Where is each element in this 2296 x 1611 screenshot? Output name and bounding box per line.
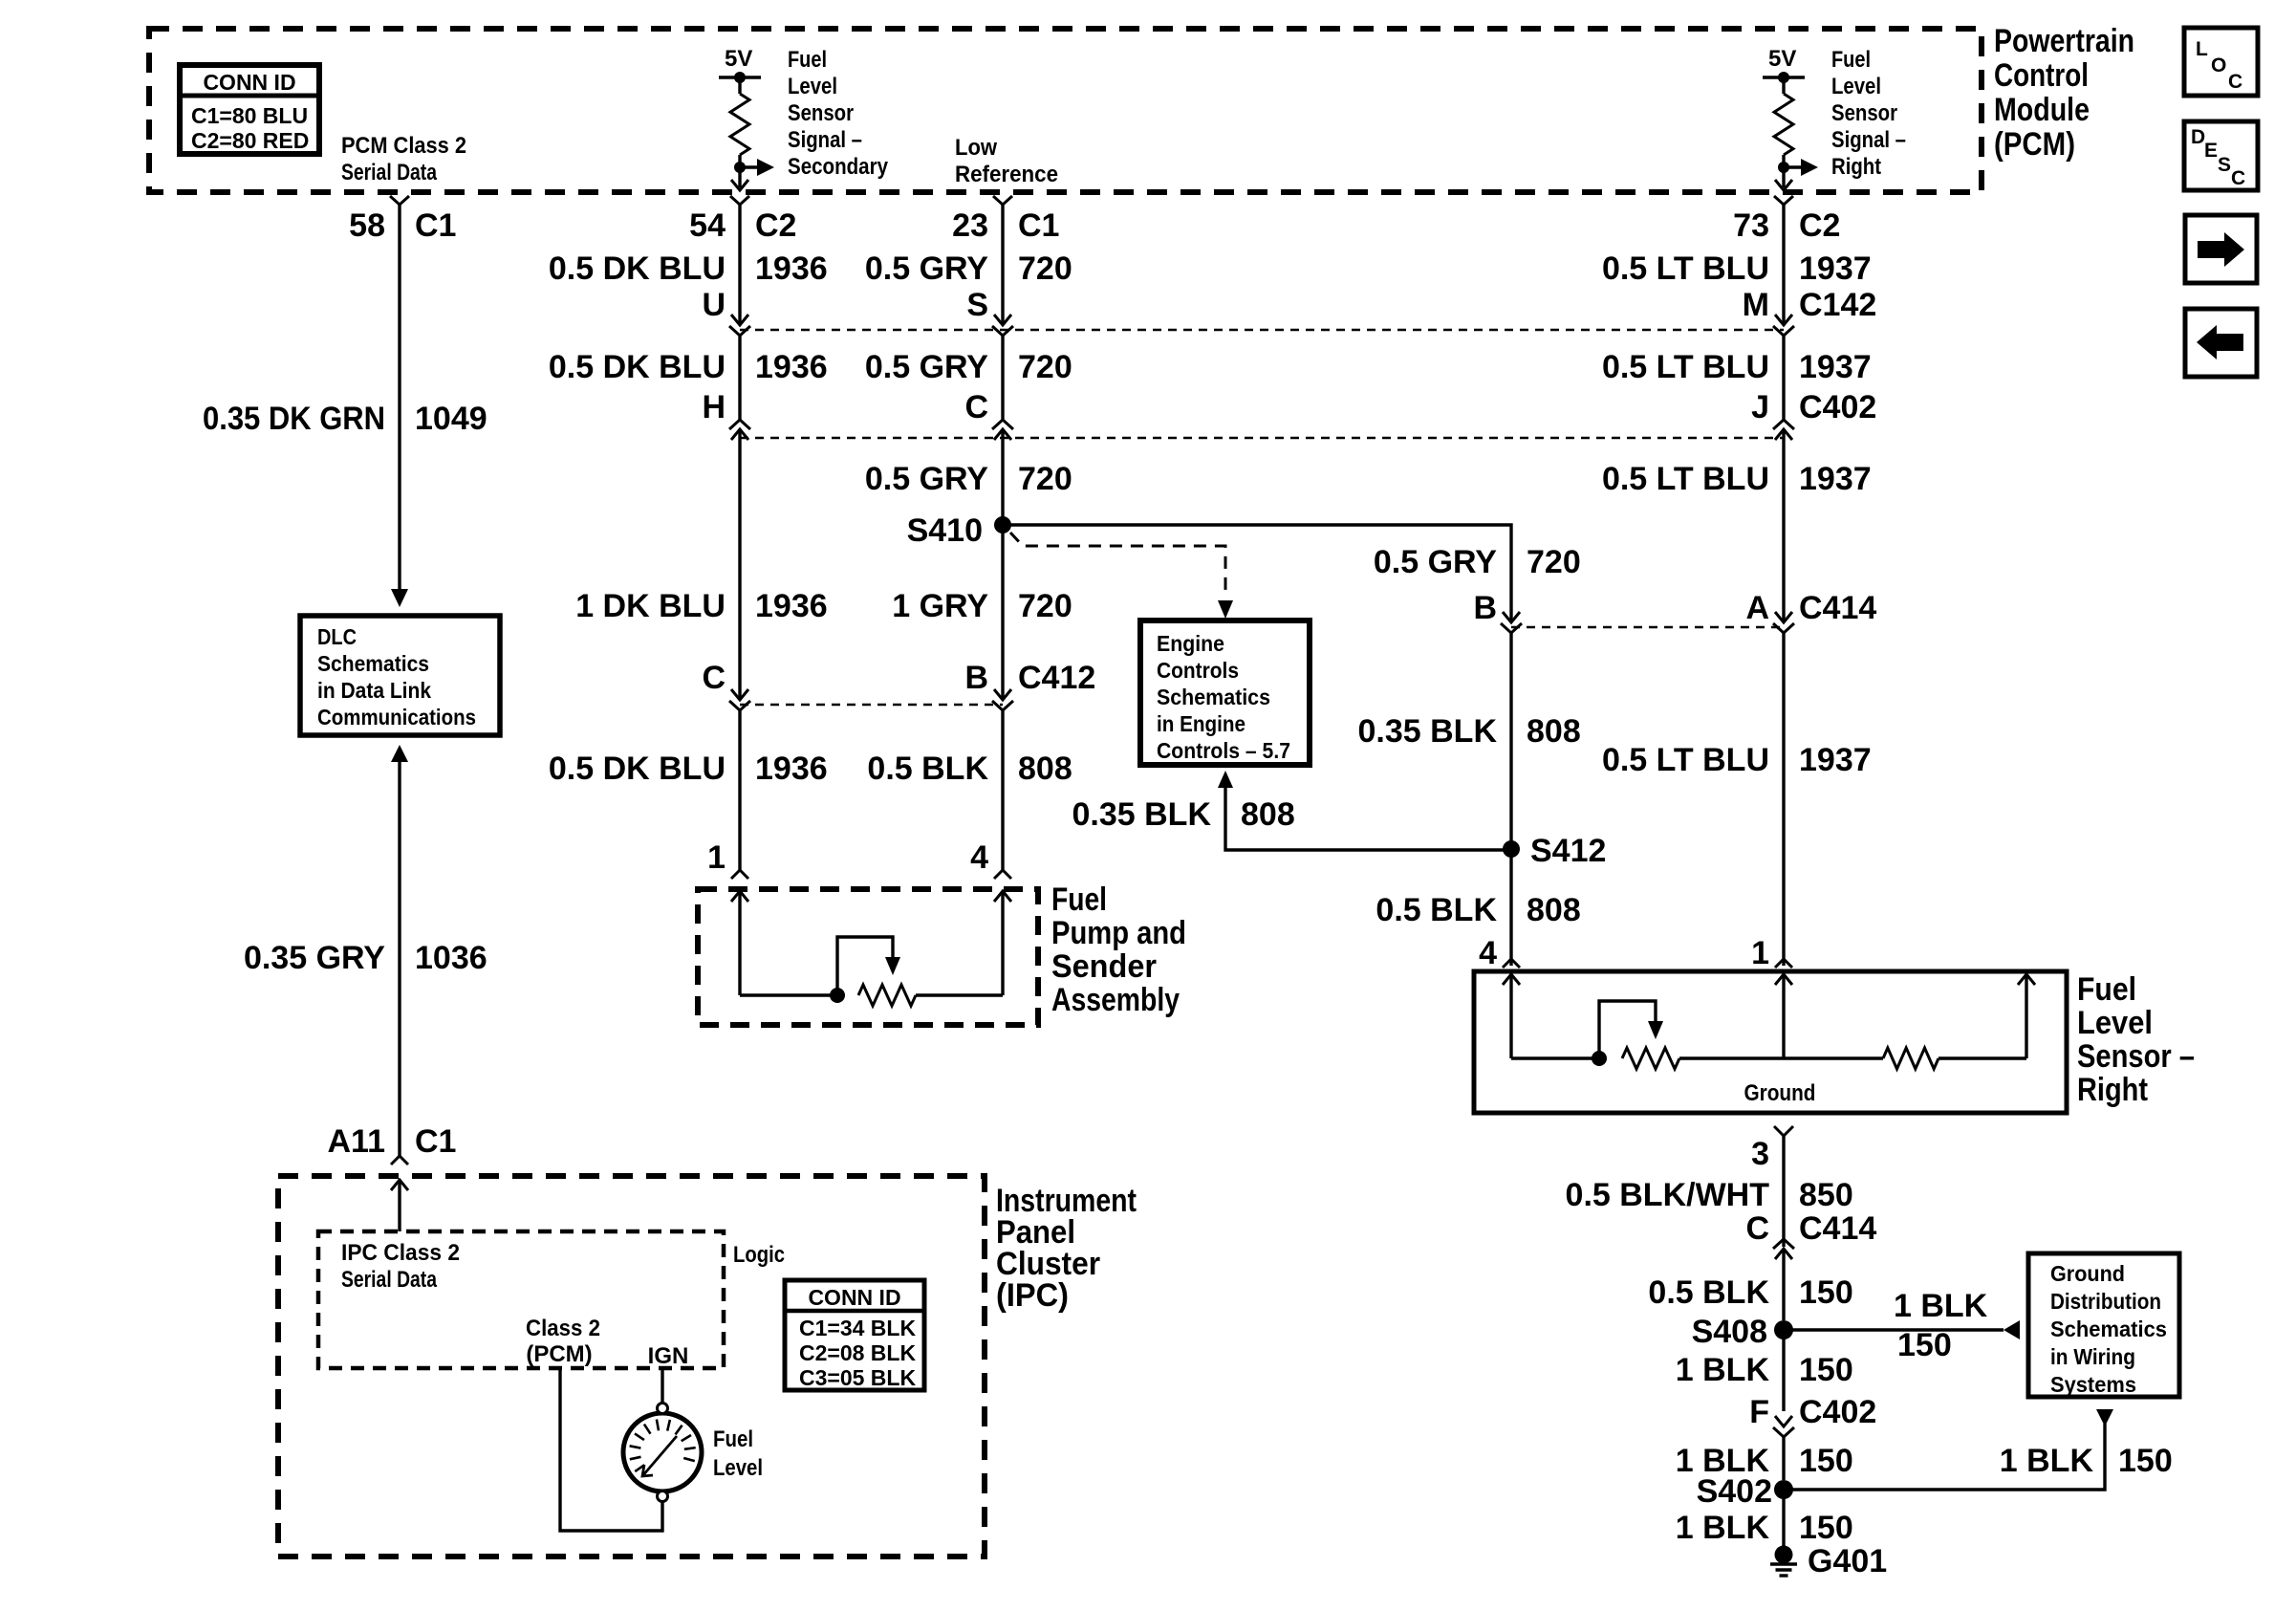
- svg-text:1049: 1049: [415, 401, 487, 437]
- svg-text:C2=80 RED: C2=80 RED: [191, 128, 309, 153]
- svg-text:150: 150: [1799, 1352, 1853, 1388]
- svg-text:0.5 DK BLU: 0.5 DK BLU: [549, 751, 726, 787]
- svg-text:Controls: Controls: [1157, 658, 1239, 683]
- inline connector C414 pin A: [1775, 612, 1792, 622]
- connector half: fuel level sensor pin 4: [1503, 959, 1520, 968]
- junction: signal tap (right): [1778, 162, 1789, 173]
- svg-text:in Engine: in Engine: [1157, 711, 1245, 736]
- svg-text:Schematics: Schematics: [1157, 685, 1270, 709]
- dashed branch: low reference to engine controls: [1010, 533, 1225, 598]
- svg-text:S408: S408: [1692, 1314, 1767, 1350]
- svg-text:0.5 BLK/WHT: 0.5 BLK/WHT: [1566, 1177, 1770, 1213]
- svg-text:C: C: [1745, 1210, 1769, 1247]
- svg-text:808: 808: [1018, 751, 1072, 787]
- connector half: IPC pin A11 (C1): [391, 1156, 408, 1165]
- svg-text:150: 150: [2118, 1443, 2173, 1479]
- svg-text:PCM Class 2: PCM Class 2: [341, 133, 466, 159]
- wire: 0.35 DK GRN 1049 class 2 serial data: [398, 205, 401, 589]
- svg-text:Communications: Communications: [317, 705, 476, 729]
- svg-text:IPC Class 2: IPC Class 2: [341, 1240, 460, 1266]
- inline connector C402 pin J: [1773, 420, 1794, 429]
- svg-text:0.5 BLK: 0.5 BLK: [1375, 892, 1497, 928]
- legend box: arrow right: [2185, 215, 2257, 283]
- svg-text:4: 4: [1479, 935, 1497, 971]
- svg-text:U: U: [702, 287, 726, 323]
- splice S412: [1503, 840, 1520, 858]
- wire: gauge return to Class 2 logic: [560, 1368, 662, 1531]
- inline connector C412 pin B: [994, 689, 1011, 700]
- wire: IGN feed to fuel gauge: [661, 1368, 663, 1404]
- wire: sender to pin 4: [916, 993, 1003, 996]
- wire: 0.5 BLK/WHT 850 (sensor to C414): [1782, 1136, 1785, 1247]
- svg-text:C412: C412: [1018, 660, 1095, 696]
- arrowhead: pin 4 entering sender: [994, 891, 1011, 902]
- svg-text:150: 150: [1799, 1510, 1853, 1546]
- svg-text:Level: Level: [713, 1455, 763, 1481]
- svg-text:C1: C1: [1018, 207, 1059, 244]
- inline connector C402 pin C: [992, 420, 1013, 429]
- svg-text:Fuel: Fuel: [1831, 47, 1871, 73]
- svg-text:Logic: Logic: [733, 1242, 785, 1268]
- wire: 0.5 BLK 150 (C414 to S408): [1782, 1251, 1785, 1320]
- ground G401: [1770, 1546, 1797, 1577]
- svg-text:Level: Level: [2077, 1005, 2153, 1041]
- connector half: sensor pin 3: [1774, 1126, 1793, 1136]
- svg-text:CONN ID: CONN ID: [808, 1285, 900, 1310]
- inline connector C414 pin B: [1503, 612, 1520, 622]
- svg-text:Control: Control: [1994, 57, 2089, 94]
- connector half: PCM pin 54 (C2): [730, 196, 749, 205]
- wiper arm arrow of fuel level sensor: [1599, 1001, 1663, 1058]
- module: Instrument Panel Cluster (IPC) dashed box: [278, 1176, 985, 1557]
- svg-text:Level: Level: [1831, 74, 1881, 99]
- reference box: DLC Schematics in Data Link Communications: [300, 616, 500, 735]
- svg-text:Distribution: Distribution: [2050, 1289, 2161, 1314]
- svg-text:0.5 BLK: 0.5 BLK: [1648, 1274, 1769, 1311]
- svg-text:H: H: [702, 389, 726, 425]
- svg-text:808: 808: [1527, 892, 1581, 928]
- svg-text:0.35 GRY: 0.35 GRY: [244, 940, 385, 976]
- inline connector C142 dashed body: [740, 329, 1784, 332]
- legend box: DESC: [2184, 121, 2258, 190]
- svg-text:C402: C402: [1799, 389, 1876, 425]
- arrowhead: wire leaving PCM: [731, 180, 748, 190]
- svg-text:C414: C414: [1799, 1210, 1876, 1247]
- wire: sensor bottom left: [1511, 1056, 1599, 1059]
- legend box: LOC: [2184, 28, 2258, 96]
- wiper arm: [837, 937, 893, 995]
- connector ID table CONN ID (IPC): C1=34 BLK / C2=08 BLK / C3=05 BLK: [785, 1280, 924, 1390]
- inline connector C412 pin C: [731, 689, 748, 700]
- svg-text:F: F: [1749, 1394, 1769, 1430]
- svg-text:DLC: DLC: [317, 624, 357, 649]
- svg-text:S412: S412: [1530, 833, 1606, 869]
- svg-text:1 BLK: 1 BLK: [1676, 1510, 1770, 1546]
- svg-text:Controls – 5.7: Controls – 5.7: [1157, 738, 1290, 763]
- arrowhead: wire leaving PCM: [1775, 180, 1792, 190]
- svg-text:(IPC): (IPC): [996, 1277, 1069, 1314]
- module: Powertrain Control Module (PCM) dashed box: [149, 29, 1982, 192]
- arrowhead: right lead entering sensor: [2018, 974, 2035, 985]
- wire: 0.5 LT BLU 1937 (C414 to fuel level sensor): [1782, 633, 1785, 966]
- inline connector C412 dashed body: [740, 704, 1003, 707]
- wire: class 2 serial data inside IPC: [398, 1180, 401, 1231]
- svg-text:S402: S402: [1697, 1473, 1772, 1510]
- svg-text:0.35 BLK: 0.35 BLK: [1072, 796, 1212, 833]
- svg-text:0.5 GRY: 0.5 GRY: [865, 349, 988, 385]
- wiper arrowhead: [1648, 1021, 1663, 1039]
- svg-text:Fuel: Fuel: [2077, 971, 2136, 1008]
- wire: sender bottom: [740, 993, 837, 996]
- svg-text:S: S: [966, 287, 988, 323]
- svg-text:C2: C2: [1799, 207, 1840, 244]
- arrowhead: from IPC up into DLC box: [391, 745, 408, 762]
- svg-text:Fuel: Fuel: [713, 1426, 753, 1452]
- wire: sender wiper lead: [738, 891, 741, 995]
- wire: sensor bottom middle: [1679, 1056, 1883, 1059]
- svg-text:B: B: [964, 660, 988, 696]
- svg-text:850: 850: [1799, 1177, 1853, 1213]
- resistor zigzag: [730, 94, 749, 155]
- resistor: PCM internal pull-up (secondary): [730, 77, 749, 187]
- wire: 1 DK BLU 1936 (C402 to C412): [738, 431, 741, 700]
- svg-text:C2: C2: [755, 207, 796, 244]
- component: Fuel Pump and Sender Assembly dashed box: [698, 889, 1038, 1025]
- svg-text:Signal –: Signal –: [1831, 127, 1906, 153]
- wire: 0.5 LT BLU 1937 (C402 to C414): [1782, 431, 1785, 622]
- node: 5V supply (secondary sensor pull-up): [719, 46, 761, 83]
- gauge needle: [642, 1436, 677, 1476]
- wire: 0.5 DK BLU 1936 (C142 to C402): [738, 336, 741, 421]
- wire: sensor signal lead: [1782, 974, 1785, 1058]
- svg-text:C: C: [702, 660, 726, 696]
- wire: 0.35 GRY 1036 class 2 serial data: [398, 762, 401, 1156]
- svg-text:CONN ID: CONN ID: [203, 70, 295, 95]
- svg-text:Serial Data: Serial Data: [341, 1267, 438, 1293]
- connector ID table CONN ID (PCM): C1=80 BLU / C2=80 RED: [180, 65, 319, 154]
- svg-text:720: 720: [1018, 349, 1072, 385]
- arrowhead: toward ground distribution (off-page): [2004, 1320, 2020, 1339]
- inline connector C414 pin C: [1773, 1239, 1794, 1249]
- resistor zigzag: sense element: [1622, 1048, 1679, 1069]
- svg-text:808: 808: [1527, 713, 1581, 750]
- svg-text:A11: A11: [328, 1123, 386, 1160]
- svg-text:in Wiring: in Wiring: [2050, 1344, 2135, 1369]
- splice S402: [1774, 1480, 1793, 1499]
- inline connector C402 pin H: [729, 420, 750, 429]
- legend box: arrow left: [2185, 309, 2257, 377]
- svg-text:C: C: [2231, 167, 2245, 189]
- reference box: Ground Distribution Schematics in Wiring Systems: [2028, 1253, 2179, 1397]
- svg-text:720: 720: [1018, 461, 1072, 497]
- arrowhead: pin 1 entering sender: [731, 891, 748, 902]
- logic block: IPC Class 2 Serial Data dashed box: [318, 1231, 724, 1368]
- svg-text:C1: C1: [415, 1123, 456, 1160]
- svg-text:0.35 BLK: 0.35 BLK: [1358, 713, 1498, 750]
- resistor zigzag: sender element: [858, 985, 916, 1006]
- resistor zigzag: [1883, 1048, 1939, 1069]
- svg-text:1936: 1936: [755, 250, 828, 287]
- svg-text:Powertrain: Powertrain: [1994, 23, 2134, 59]
- splice S408: [1774, 1320, 1793, 1339]
- svg-text:0.5 DK BLU: 0.5 DK BLU: [549, 250, 726, 287]
- svg-text:0.5 BLK: 0.5 BLK: [867, 751, 988, 787]
- svg-text:Fuel: Fuel: [1051, 882, 1107, 918]
- variable resistor: fuel sender: [740, 985, 1003, 1006]
- svg-text:Assembly: Assembly: [1051, 982, 1180, 1018]
- connector half: PCM pin 58 (C1): [390, 196, 409, 205]
- svg-text:808: 808: [1241, 796, 1295, 833]
- svg-text:C1=34 BLK: C1=34 BLK: [799, 1316, 916, 1340]
- svg-text:1936: 1936: [755, 349, 828, 385]
- svg-text:Systems: Systems: [2050, 1372, 2136, 1397]
- svg-text:O: O: [2211, 54, 2226, 76]
- svg-text:Module: Module: [1994, 92, 2090, 128]
- svg-text:720: 720: [1018, 588, 1072, 624]
- svg-text:150: 150: [1799, 1274, 1853, 1311]
- wiper arm arrow of fuel sender: [837, 937, 900, 995]
- junction: signal tap (secondary): [734, 162, 746, 173]
- svg-text:Secondary: Secondary: [788, 154, 889, 180]
- svg-text:1 BLK: 1 BLK: [2000, 1443, 2094, 1479]
- inline connector C402 dashed body: [740, 437, 1784, 440]
- wire: 1 BLK 150 from S408 to ground distribution: [1784, 1328, 2004, 1331]
- wire: 0.5 LT BLU 1937 (PCM to C142): [1782, 205, 1785, 325]
- svg-text:Fuel: Fuel: [788, 47, 827, 73]
- svg-text:(PCM): (PCM): [1994, 126, 2075, 163]
- svg-text:C414: C414: [1799, 590, 1876, 626]
- reference box: Engine Controls Schematics in Engine Controls - 5.7: [1140, 620, 1310, 765]
- svg-text:4: 4: [970, 839, 988, 876]
- svg-text:1036: 1036: [415, 940, 487, 976]
- svg-text:54: 54: [689, 207, 726, 244]
- svg-text:Right: Right: [1831, 154, 1881, 180]
- svg-text:1: 1: [707, 839, 726, 876]
- wire: sensor wiper lead: [1509, 974, 1512, 1058]
- svg-text:B: B: [1473, 590, 1497, 626]
- wire: 0.35/0.5 BLK 808 (C414 to fuel level sensor): [1509, 633, 1512, 966]
- svg-text:in Data Link: in Data Link: [317, 678, 431, 703]
- svg-text:1 GRY: 1 GRY: [892, 588, 988, 624]
- svg-text:C: C: [2228, 71, 2242, 93]
- svg-text:Reference: Reference: [955, 162, 1058, 187]
- svg-text:1 BLK: 1 BLK: [1894, 1288, 1988, 1324]
- svg-text:C1: C1: [415, 207, 456, 244]
- svg-text:C142: C142: [1799, 287, 1876, 323]
- svg-text:C3=05 BLK: C3=05 BLK: [799, 1365, 916, 1390]
- svg-text:C2=08 BLK: C2=08 BLK: [799, 1340, 916, 1365]
- svg-text:0.5 DK BLU: 0.5 DK BLU: [549, 349, 726, 385]
- connector half: fuel pump pin 1: [731, 870, 748, 879]
- inline connector C402 pin F: [1775, 1416, 1792, 1426]
- resistor zigzag: [1774, 94, 1793, 155]
- svg-text:Engine: Engine: [1157, 631, 1224, 656]
- svg-text:1937: 1937: [1799, 742, 1872, 778]
- resistor: sensor ground-side element: [1883, 1048, 2026, 1069]
- gauge: Fuel Level indicator: [623, 1404, 702, 1502]
- svg-text:A: A: [1745, 590, 1769, 626]
- svg-text:M: M: [1743, 287, 1769, 323]
- wire: 0.5 GRY 720 (C142 to C402): [1001, 336, 1004, 421]
- svg-text:L: L: [2196, 38, 2208, 60]
- svg-text:G401: G401: [1808, 1543, 1887, 1579]
- wire: 0.5 GRY 720 (PCM to C142): [1001, 205, 1004, 325]
- svg-text:Signal –: Signal –: [788, 127, 862, 153]
- svg-text:Class 2: Class 2: [526, 1316, 600, 1341]
- arrowhead: pin 1 entering sensor: [1775, 974, 1792, 985]
- arrowhead: from engine controls ground lead: [1218, 771, 1233, 788]
- wire: 0.5 LT BLU 1937 (C142 to C402): [1782, 336, 1785, 421]
- svg-text:Schematics: Schematics: [317, 651, 429, 676]
- arrowhead: into DLC schematics: [391, 589, 408, 607]
- svg-text:1936: 1936: [755, 588, 828, 624]
- inline connector C142 pin S: [994, 315, 1011, 325]
- inline connector C414 dashed body: [1511, 626, 1784, 629]
- wire: 1 BLK 150 (S402 to G401): [1782, 1490, 1785, 1546]
- svg-text:0.5 LT BLU: 0.5 LT BLU: [1602, 461, 1769, 497]
- resistor: PCM internal pull-up (right): [1774, 77, 1793, 187]
- svg-text:Pump and: Pump and: [1051, 915, 1186, 951]
- svg-text:58: 58: [349, 207, 385, 244]
- svg-text:150: 150: [1799, 1443, 1853, 1479]
- svg-text:1937: 1937: [1799, 250, 1872, 287]
- svg-text:(PCM): (PCM): [526, 1341, 592, 1367]
- svg-text:Right: Right: [2077, 1072, 2148, 1108]
- wire: 1 BLK 150 (C402 to S402): [1782, 1437, 1785, 1480]
- component: Fuel Level Sensor - Right box: [1474, 971, 2067, 1113]
- svg-text:0.5 GRY: 0.5 GRY: [865, 250, 988, 287]
- node: 5V supply (right sensor pull-up): [1763, 46, 1805, 83]
- svg-text:S410: S410: [907, 512, 983, 549]
- svg-text:Ground: Ground: [1744, 1080, 1816, 1106]
- signal tap arrow: Fuel Level Sensor Signal - Secondary: [740, 165, 757, 168]
- svg-text:23: 23: [952, 207, 988, 244]
- svg-text:73: 73: [1733, 207, 1769, 244]
- svg-text:0.5 GRY: 0.5 GRY: [865, 461, 988, 497]
- svg-text:0.5 LT BLU: 0.5 LT BLU: [1602, 742, 1769, 778]
- ground dot: [1775, 1546, 1793, 1564]
- svg-text:1937: 1937: [1799, 461, 1872, 497]
- svg-text:C402: C402: [1799, 1394, 1876, 1430]
- wire: 1 BLK 150 branch from ground distribution down to S402: [1784, 1409, 2113, 1490]
- wire: 0.5 DK BLU 1936 (PCM to C142): [738, 205, 741, 325]
- wire: sender resistor lead: [1001, 891, 1004, 995]
- svg-text:Sender: Sender: [1051, 948, 1157, 985]
- svg-text:5V: 5V: [1768, 46, 1796, 72]
- wire: resistor to PCM pin 73: [1782, 155, 1785, 187]
- svg-text:720: 720: [1527, 544, 1581, 580]
- junction: sensor wiper: [1592, 1051, 1607, 1066]
- wire: 0.5 BLK 808 (C412 to fuel pump): [1001, 710, 1004, 870]
- wire: 5V to resistor: [738, 77, 741, 94]
- variable resistor: fuel level sensor element: [1511, 1048, 1883, 1069]
- connector half: PCM pin 23 (C1): [993, 196, 1012, 205]
- arrowhead: pin 4 entering sensor: [1503, 974, 1520, 985]
- arrow: signal direction (right): [757, 159, 774, 176]
- svg-text:5V: 5V: [725, 46, 752, 72]
- inline connector C142 pin M: [1775, 315, 1792, 325]
- wiper arrowhead: [885, 957, 900, 975]
- arrowhead: wire entering IPC: [391, 1180, 408, 1190]
- svg-text:Sensor: Sensor: [788, 100, 854, 126]
- svg-text:Level: Level: [788, 74, 837, 99]
- inline connector C142 pin U: [731, 315, 748, 325]
- svg-text:1 BLK: 1 BLK: [1676, 1352, 1770, 1388]
- svg-text:150: 150: [1897, 1327, 1952, 1363]
- wire: to right lead: [1939, 1056, 2026, 1059]
- wire: 1 BLK 150 (S408 to C402): [1782, 1330, 1785, 1411]
- svg-text:J: J: [1751, 389, 1769, 425]
- wire: 0.35 BLK 808 engine controls ground to S412: [1225, 788, 1511, 850]
- svg-text:0.5 LT BLU: 0.5 LT BLU: [1602, 250, 1769, 287]
- svg-text:1936: 1936: [755, 751, 828, 787]
- arrowhead: from ground distribution (off-page): [2096, 1409, 2113, 1426]
- wire: resistor to PCM pin 54: [738, 155, 741, 187]
- junction: sender wiper: [830, 988, 845, 1003]
- wire: sensor right lead: [2025, 974, 2027, 1058]
- arrow: signal direction (right): [1801, 159, 1818, 176]
- arrowhead: into engine controls box: [1218, 600, 1233, 619]
- wire: 5V to resistor: [1782, 77, 1785, 94]
- svg-text:0.5 LT BLU: 0.5 LT BLU: [1602, 349, 1769, 385]
- svg-text:Low: Low: [955, 135, 997, 161]
- svg-text:C: C: [964, 389, 988, 425]
- svg-text:1937: 1937: [1799, 349, 1872, 385]
- svg-text:1: 1: [1751, 935, 1769, 971]
- svg-text:C1=80 BLU: C1=80 BLU: [191, 103, 308, 128]
- svg-text:Sensor: Sensor: [1831, 100, 1897, 126]
- wire: 0.5 DK BLU 1936 (C412 to fuel pump): [738, 710, 741, 870]
- svg-text:S: S: [2218, 154, 2231, 176]
- connector half: PCM pin 73 (C2): [1774, 196, 1793, 205]
- svg-text:Ground: Ground: [2050, 1261, 2125, 1286]
- svg-text:D: D: [2191, 126, 2205, 148]
- svg-text:720: 720: [1018, 250, 1072, 287]
- splice S410: [994, 516, 1011, 533]
- connector half: fuel pump pin 4: [994, 870, 1011, 879]
- svg-text:E: E: [2204, 140, 2218, 162]
- connector half: fuel level sensor pin 1: [1775, 959, 1792, 968]
- wire: 0.5/1 GRY 720 low reference (C402 to C412): [1001, 431, 1004, 700]
- signal tap arrow: Fuel Level Sensor Signal - Right: [1784, 165, 1801, 168]
- svg-text:Serial Data: Serial Data: [341, 160, 438, 185]
- wiper arm: [1599, 1001, 1656, 1058]
- svg-text:0.35 DK GRN: 0.35 DK GRN: [203, 401, 385, 437]
- svg-text:3: 3: [1751, 1136, 1769, 1172]
- svg-text:1 DK BLU: 1 DK BLU: [575, 588, 726, 624]
- svg-text:IGN: IGN: [648, 1343, 689, 1369]
- svg-text:Sensor –: Sensor –: [2077, 1038, 2195, 1075]
- svg-text:0.5 GRY: 0.5 GRY: [1374, 544, 1497, 580]
- wire: 0.5 GRY 720 from S410 to C414 pin B: [1003, 525, 1511, 622]
- svg-text:Schematics: Schematics: [2050, 1317, 2167, 1341]
